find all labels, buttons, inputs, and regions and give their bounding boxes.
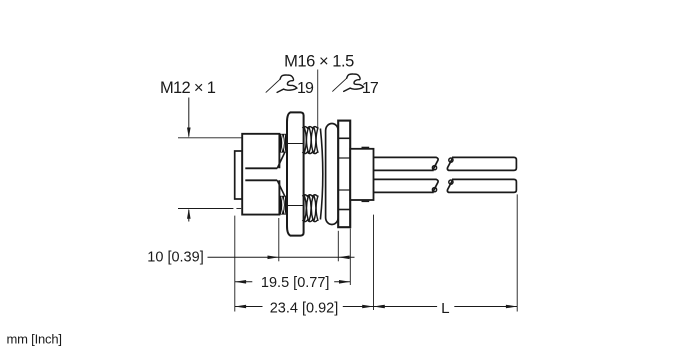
rear nut chamfer line top	[338, 137, 350, 139]
thread runout bow	[320, 129, 322, 220]
body notch lower line	[245, 179, 277, 181]
wire band 2 left segment	[374, 179, 439, 192]
dim 19.5 right arrow	[339, 280, 350, 284]
svg-text:17: 17	[362, 80, 379, 97]
dim 23.4 right arrow	[362, 305, 373, 309]
dim L right arrow	[506, 305, 517, 309]
connector front body	[242, 134, 279, 215]
dim 19.5 line right	[334, 281, 350, 283]
M12 dimension upper arrow	[187, 98, 191, 138]
svg-text:19.5 [0.77]: 19.5 [0.77]	[261, 275, 330, 291]
rear body bottom lip	[362, 200, 370, 202]
body flare upper	[277, 152, 285, 168]
front thread stub lower	[280, 196, 287, 215]
svg-text:mm [Inch]: mm [Inch]	[7, 332, 62, 347]
rear body	[350, 149, 373, 200]
svg-text:L: L	[441, 300, 449, 317]
svg-text:10 [0.39]: 10 [0.39]	[147, 249, 203, 265]
front hex flange (across corners)	[287, 112, 304, 235]
dim L right extension line	[516, 194, 518, 311]
svg-text:23.4 [0.92]: 23.4 [0.92]	[270, 301, 339, 317]
svg-text:M12 × 1: M12 × 1	[160, 79, 216, 97]
wire band 2 right segment	[447, 179, 516, 192]
dim 23.4 right extension line	[373, 215, 375, 310]
rear hex nut	[338, 121, 350, 228]
front thread stub upper	[280, 134, 287, 153]
left extension line (19.5/23.4)	[234, 216, 236, 312]
rear nut flat line upper	[338, 157, 350, 159]
dim 10 right extension line	[337, 231, 339, 261]
dim 19.5 right extension line	[349, 228, 351, 285]
M12 upper extension line	[178, 137, 243, 139]
dim L left arrow	[374, 305, 385, 309]
connector mating face step	[235, 151, 243, 199]
dim L line left	[374, 306, 438, 308]
flange facet line lower	[287, 205, 304, 207]
wrench icon 17	[333, 74, 364, 91]
wire band 1 left segment	[374, 157, 439, 170]
rear nut flat line lower	[338, 189, 350, 191]
dim L line right	[454, 306, 517, 308]
flange facet line upper	[287, 143, 304, 145]
M12 lower extension dash	[236, 208, 241, 210]
body notch upper line	[245, 167, 277, 169]
wire band 1 right segment	[447, 157, 516, 170]
M16 thread upper band	[302, 127, 318, 154]
dim 10 right arrow	[338, 256, 349, 260]
rear nut chamfer line bottom	[338, 209, 350, 211]
dim 23.4 left arrow	[235, 305, 246, 309]
wrench icon 19	[266, 75, 297, 92]
dim 23.4 line right	[343, 306, 374, 308]
dim 19.5 line left	[235, 281, 253, 283]
leader line M16	[317, 70, 319, 129]
svg-text:19: 19	[297, 80, 314, 97]
dim 10 left extension line	[278, 218, 280, 261]
svg-text:M16 × 1.5: M16 × 1.5	[284, 52, 354, 70]
M12 dimension lower arrow	[187, 209, 191, 222]
body flare lower	[277, 180, 285, 196]
dim 19.5 left arrow	[235, 280, 246, 284]
sealing washer	[326, 124, 339, 225]
dim 23.4 line left	[235, 306, 263, 308]
dim 10 left arrow	[268, 256, 279, 260]
M12 lower extension line	[178, 208, 233, 210]
M16 thread lower band	[302, 195, 318, 222]
dim 10 leader line	[208, 256, 355, 258]
rear body top lip	[362, 146, 370, 148]
